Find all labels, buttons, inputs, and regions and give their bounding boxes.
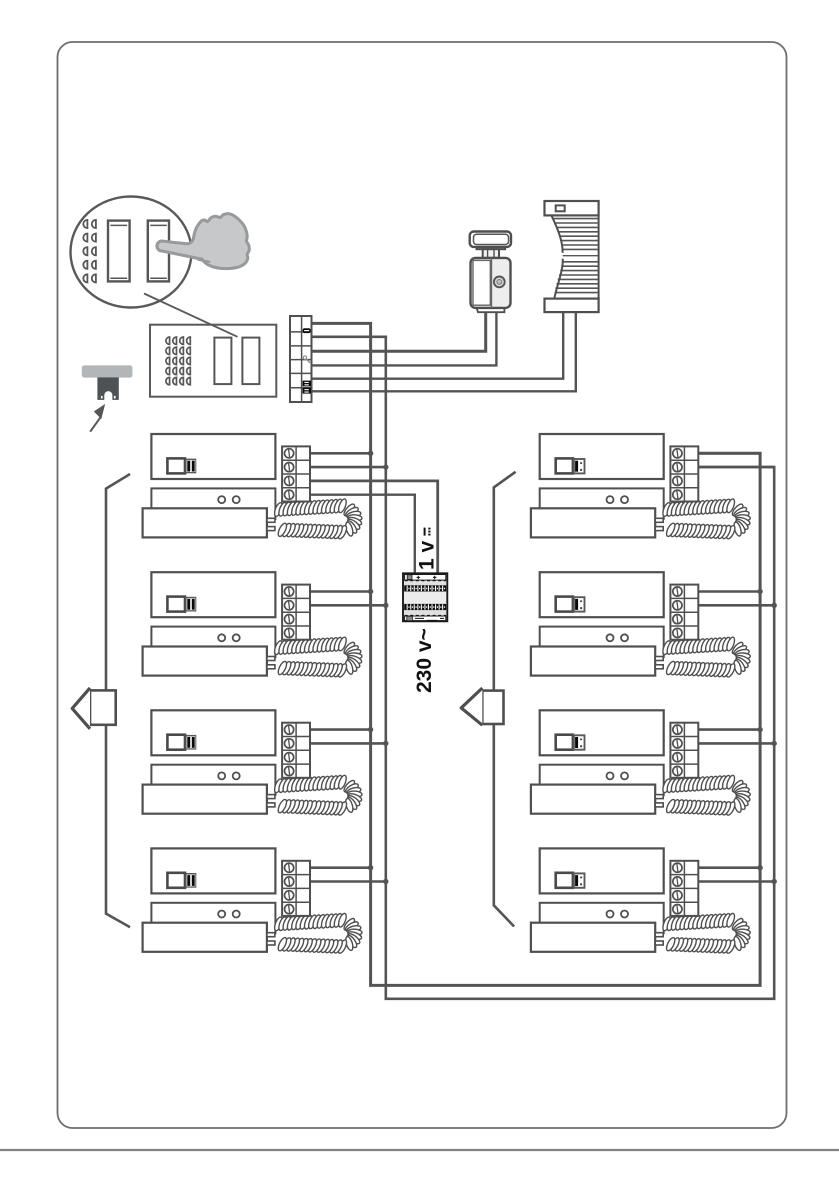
detail circle speaker holes — [83, 220, 96, 283]
wire: right handset 2 terminal 2 to right riser B — [698, 604, 774, 607]
wire: right handset 1 terminal 1 to right riser A — [698, 452, 760, 455]
wire: panel terminal 6 to door strike pin 2 — [312, 312, 576, 391]
wire: left handset 4 terminal 1 to bus A — [310, 866, 371, 869]
junction: right handset 2 on right riser A — [757, 589, 762, 594]
handset unit 5 (right column) — [531, 434, 751, 540]
arrow to jumper — [90, 404, 105, 432]
handset unit 8 (right column) — [531, 848, 751, 954]
power supply (transformer) — [403, 573, 447, 621]
svg-text:230 v~: 230 v~ — [413, 628, 436, 693]
panel terminal block bell icon — [303, 328, 311, 333]
wire: left handset 3 terminal 1 to bus A — [310, 728, 371, 731]
door strike group — [545, 201, 599, 312]
power supply bottom strip — [404, 611, 446, 621]
handset unit 3 (left column) — [143, 710, 363, 816]
junction: left handset 2 on bus B — [383, 603, 388, 608]
entrance panel speaker grille — [166, 337, 190, 385]
electric lock body group — [470, 232, 511, 313]
wire: panel terminal 5 to door strike pin 1 — [312, 312, 564, 379]
pointing hand — [157, 214, 249, 269]
detail circle call button 1 — [108, 221, 130, 282]
power supply lower terminal row — [404, 604, 446, 610]
junction: left handset 1 on bus B — [383, 464, 388, 469]
junction: right handset 4 on right riser B — [772, 879, 777, 884]
wire: right handset 3 terminal 2 to right riser B — [698, 742, 774, 745]
handset unit 4 (left column) — [143, 848, 363, 954]
wire: left handset 3 terminal 2 to bus B — [310, 742, 386, 745]
left group arrow head — [72, 688, 90, 729]
jumper icon plug — [97, 377, 118, 400]
wire: right handset 2 terminal 1 to right riser A — [698, 590, 760, 593]
callout line from detail circle to panel button — [144, 294, 238, 337]
left group arrow box — [90, 690, 116, 724]
junction: left handset 1 on bus A — [368, 451, 373, 456]
panel terminal block speaker icon 2 — [303, 388, 311, 394]
handset unit 1 (left column) — [143, 434, 363, 540]
right group bracket — [494, 472, 516, 927]
power supply upper terminal row — [404, 585, 446, 591]
right group arrow box — [482, 691, 503, 724]
panel terminal block — [290, 316, 312, 402]
dc symbol — [425, 528, 430, 536]
handset unit 6 (right column) — [531, 572, 751, 678]
junction: right handset 3 on right riser B — [772, 741, 777, 746]
wire: right handset 1 terminal 2 to right riser B — [698, 466, 774, 469]
junction: left handset 2 on bus A — [368, 589, 373, 594]
detail circle call button 2 — [148, 221, 169, 282]
wire: left handset 1 terminal 4 to PSU output 2 — [310, 495, 415, 574]
junction: left handset 3 on bus A — [368, 727, 373, 732]
junction: left handset 4 on bus B — [383, 879, 388, 884]
wire: left handset 2 terminal 1 to bus A — [310, 590, 371, 593]
panel terminal block speaker icon 1 — [303, 381, 311, 387]
left group bracket — [106, 474, 130, 927]
handset unit 7 (right column) — [531, 710, 751, 816]
wire: left handset 1 terminal 3 to PSU output 1 — [310, 481, 438, 573]
wire: right handset 4 terminal 1 to right riser A — [698, 866, 760, 869]
junction: left handset 3 on bus B — [383, 741, 388, 746]
svg-text:1 v: 1 v — [416, 540, 439, 570]
jumper icon bar — [82, 365, 133, 377]
junction: right handset 4 on right riser A — [757, 865, 762, 870]
panel terminal block key icon — [303, 356, 310, 363]
entrance panel call button 1 — [214, 338, 231, 385]
junction: right handset 2 on right riser B — [772, 603, 777, 608]
wire: right handset 4 terminal 2 to right riser B — [698, 880, 774, 883]
junction: left handset 4 on bus A — [368, 865, 373, 870]
wire: panel terminal 4 to electric lock pin 2 — [312, 312, 497, 365]
wire: bus A (panel terminal 1 - left riser - bottom run - right riser) — [312, 323, 761, 985]
handset unit 2 (left column) — [143, 572, 363, 678]
right group arrow head — [461, 688, 482, 725]
pointing hand finger fold line — [199, 260, 210, 262]
wire: left handset 2 terminal 2 to bus B — [310, 604, 386, 607]
junction: right handset 3 on right riser A — [757, 727, 762, 732]
wire: panel terminal 3 to electric lock pin 1 — [312, 312, 486, 351]
wire: bus B (panel terminal 2 - left riser - bottom run - right riser) — [312, 337, 775, 999]
wire: left handset 1 terminal 2 to bus B — [310, 466, 386, 469]
wire: left handset 1 terminal 1 to bus A — [310, 452, 371, 455]
entrance panel call button 2 — [242, 338, 259, 385]
entrance panel — [150, 325, 276, 397]
wire: right handset 3 terminal 1 to right riser A — [698, 728, 760, 731]
wire: left handset 4 terminal 2 to bus B — [310, 880, 386, 883]
detail circle (zoom view of panel buttons) — [71, 197, 192, 308]
